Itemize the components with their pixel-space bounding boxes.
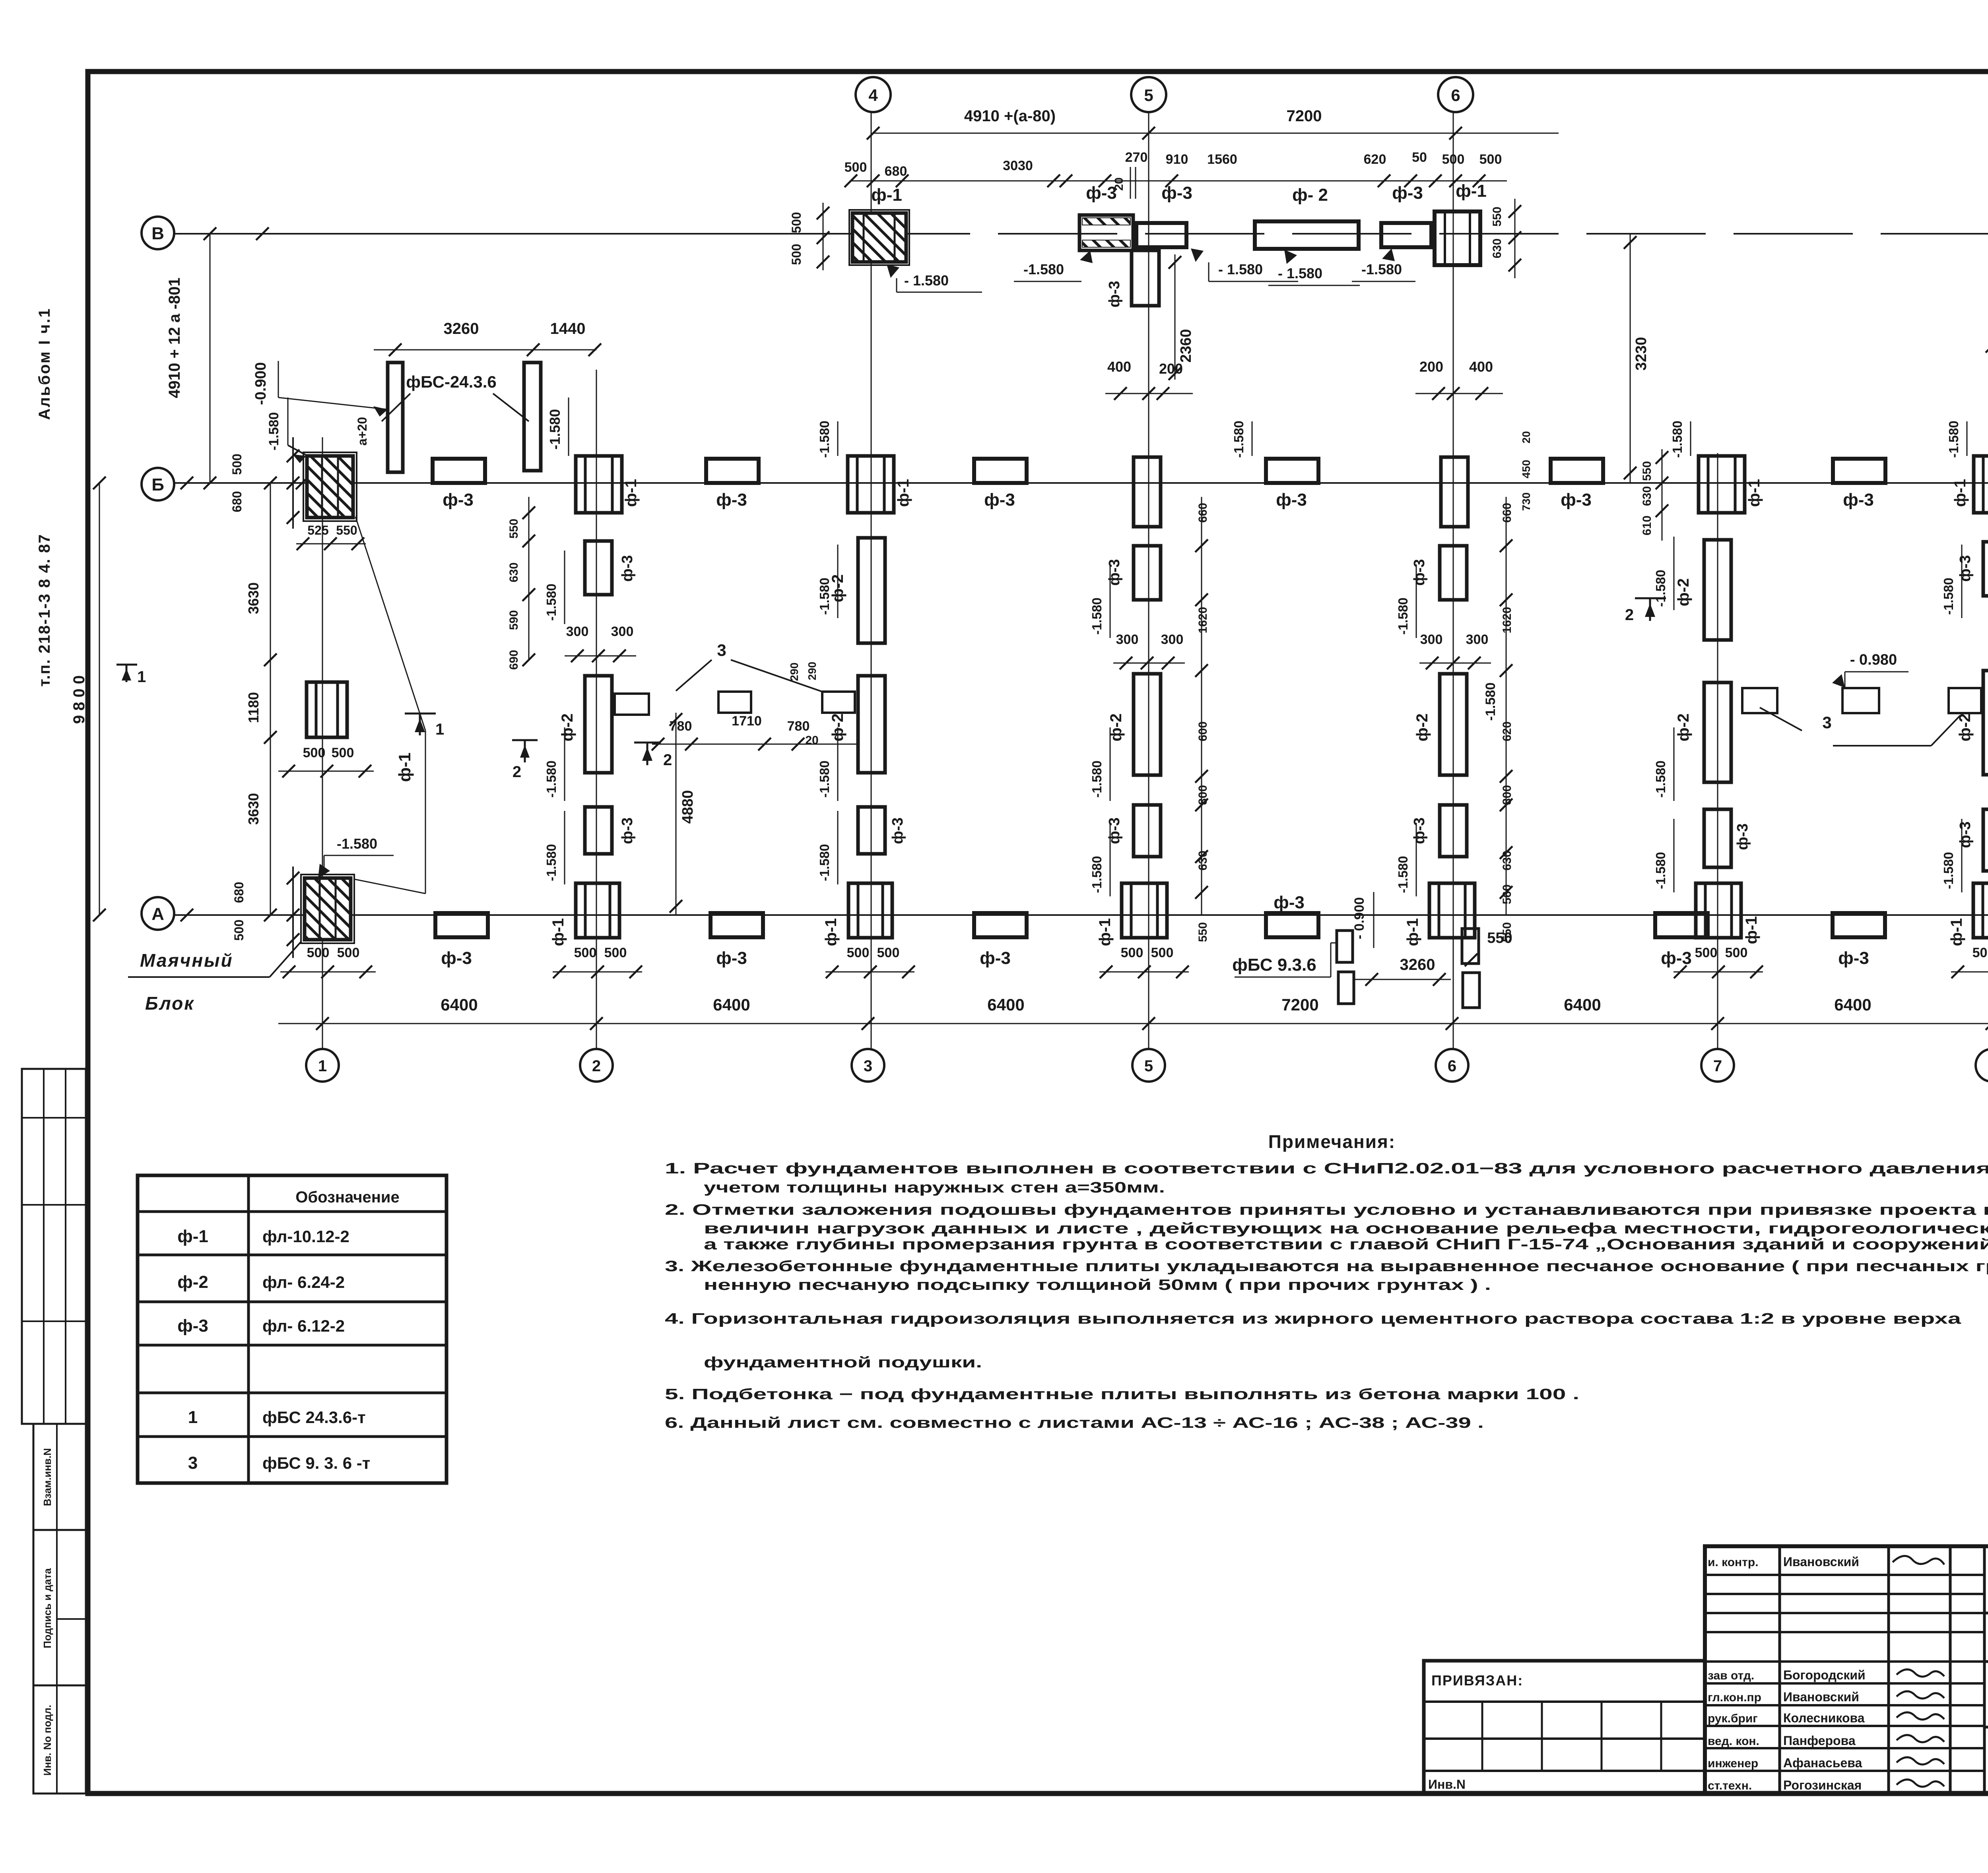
dim 3260 at А middle <box>1354 979 1451 980</box>
svg-text:500: 500 <box>574 945 597 960</box>
axis В circle <box>142 217 174 249</box>
svg-text:4910 +(a-80): 4910 +(a-80) <box>964 107 1056 125</box>
svg-text:630: 630 <box>507 562 520 582</box>
svg-text:ф-3: ф-3 <box>984 490 1015 510</box>
vertical dim 3630/1180/3630 col1 <box>270 483 271 915</box>
section mark 2 mid <box>634 742 661 744</box>
svg-text:3260: 3260 <box>444 320 479 337</box>
svg-text:-0.900: -0.900 <box>252 362 269 405</box>
малый блок ФБС-9.3.6 center-left <box>718 692 751 713</box>
stack col3 <box>858 538 885 643</box>
bottom axis circle 8 <box>1976 1049 1988 1082</box>
svg-text:ф-1: ф-1 <box>1096 918 1114 946</box>
svg-text:3: 3 <box>864 1057 872 1075</box>
svg-text:Рогозинская: Рогозинская <box>1783 1778 1862 1792</box>
блок Ф-3 hatched at В/5 left <box>1079 215 1133 250</box>
svg-text:2: 2 <box>663 751 672 769</box>
title block outer <box>1705 1546 1988 1794</box>
svg-text:рук.бриг: рук.бриг <box>1708 1712 1758 1725</box>
svg-text:500: 500 <box>604 945 627 960</box>
блок Ф-1 at Б/2 <box>576 456 622 513</box>
tick chain line col5 right <box>1201 497 1202 915</box>
axis Б circle <box>142 468 174 500</box>
bottom dimension line 6400 series <box>278 1023 1988 1024</box>
svg-text:500: 500 <box>847 945 870 960</box>
svg-text:500: 500 <box>1442 152 1465 167</box>
svg-text:500: 500 <box>337 945 360 960</box>
svg-text:1: 1 <box>188 1408 198 1427</box>
svg-text:ф-3: ф-3 <box>1276 490 1307 510</box>
svg-text:ф-1: ф-1 <box>1743 916 1760 944</box>
svg-text:780: 780 <box>787 719 810 734</box>
svg-text:6400: 6400 <box>987 995 1024 1014</box>
svg-text:Взам.инв.N: Взам.инв.N <box>41 1448 53 1506</box>
svg-text:1620: 1620 <box>1501 607 1514 634</box>
блок Ф-3 at Б between 7-8 <box>1833 459 1885 483</box>
svg-text:фундаментной подушки.: фундаментной подушки. <box>704 1354 982 1371</box>
svg-text:270: 270 <box>1125 150 1148 165</box>
top axis circle 5 <box>1131 77 1166 112</box>
svg-text:В: В <box>151 224 164 243</box>
svg-text:290: 290 <box>788 663 800 681</box>
svg-text:-1.580: -1.580 <box>544 760 559 798</box>
svg-text:-1.580: -1.580 <box>1089 856 1104 893</box>
svg-text:-1.580: -1.580 <box>1231 421 1246 458</box>
svg-text:-1.580: -1.580 <box>1396 856 1410 893</box>
svg-text:ф-3: ф-3 <box>1843 490 1874 510</box>
svg-text:800: 800 <box>1196 785 1209 805</box>
svg-text:Маячный: Маячный <box>140 950 233 971</box>
svg-text:1: 1 <box>318 1057 327 1075</box>
svg-text:500: 500 <box>332 745 354 760</box>
section mark 2 right <box>1635 597 1666 599</box>
svg-text:-1.580: -1.580 <box>544 584 559 621</box>
блок Ф-1 mid col1 <box>307 682 347 737</box>
маячный блок Ф-1 hatched at А/1 <box>301 874 354 943</box>
left margin strip: Инв. N подл cell <box>33 1685 86 1794</box>
svg-text:620: 620 <box>1364 152 1386 167</box>
svg-text:фБС-24.3.6: фБС-24.3.6 <box>406 372 496 391</box>
блок Ф-3 at А between 6-7 <box>1655 913 1708 937</box>
блок Ф-3 at Б between 2-3 <box>706 459 759 483</box>
svg-text:ф-3: ф-3 <box>619 817 636 844</box>
svg-text:3230: 3230 <box>1633 337 1650 371</box>
блок Ф-3 at В/5 right <box>1136 223 1186 247</box>
top dimension line 4910+(a-80) / 7200 <box>873 133 1559 134</box>
блок Ф-3 at А between 3-5 <box>974 913 1027 937</box>
svg-text:Ивановский: Ивановский <box>1783 1690 1859 1704</box>
стопка ФБС-9.3.6 crossing А <box>1337 931 1353 962</box>
svg-text:300: 300 <box>1466 632 1489 647</box>
svg-text:730: 730 <box>1520 492 1532 511</box>
stack col2 <box>585 541 612 595</box>
column line 6 <box>1453 112 1454 1049</box>
svg-text:2: 2 <box>513 763 521 781</box>
svg-text:величин нагрузок данных и л: величин нагрузок данных и листе , действ… <box>704 1220 1988 1237</box>
svg-text:ф-1: ф-1 <box>395 752 414 782</box>
svg-text:910: 910 <box>1166 152 1188 167</box>
svg-text:500: 500 <box>845 160 867 175</box>
section mark 2 small col2 <box>512 739 538 741</box>
svg-text:620: 620 <box>1501 721 1514 741</box>
svg-text:1710: 1710 <box>732 714 762 729</box>
svg-text:500: 500 <box>1479 152 1502 167</box>
svg-text:50: 50 <box>1412 150 1427 165</box>
блок Ф-3 at А between 5-6 <box>1266 913 1318 937</box>
svg-text:200: 200 <box>1419 359 1443 375</box>
svg-text:1. Расчет фундаментов выполн: 1. Расчет фундаментов выполнен в соответ… <box>665 1160 1988 1177</box>
малые блоки ФБС-9.3.6 у col7 <box>1742 688 1777 713</box>
svg-text:550: 550 <box>1491 207 1504 227</box>
svg-text:-1.580: -1.580 <box>1941 852 1956 889</box>
svg-text:-1.580: -1.580 <box>817 760 832 798</box>
svg-text:ф-2: ф-2 <box>1413 714 1431 742</box>
svg-text:-1.580: -1.580 <box>544 844 559 881</box>
svg-text:Инв. Nо подл.: Инв. Nо подл. <box>41 1705 53 1776</box>
top axis circle 4 <box>856 77 891 112</box>
svg-text:ст.техн.: ст.техн. <box>1708 1779 1752 1792</box>
column line 5 <box>1148 112 1149 1049</box>
svg-text:5: 5 <box>1144 86 1153 105</box>
svg-text:660: 660 <box>1196 503 1209 523</box>
svg-text:590: 590 <box>507 610 520 630</box>
svg-text:ф-2: ф-2 <box>177 1272 208 1292</box>
svg-text:фл- 6.12-2: фл- 6.12-2 <box>262 1317 345 1335</box>
svg-text:3: 3 <box>717 641 726 659</box>
svg-text:630: 630 <box>1491 238 1504 258</box>
svg-text:610: 610 <box>1640 516 1654 535</box>
svg-text:6. Данный лист см. совместн: 6. Данный лист см. совместно с листами А… <box>665 1415 1484 1431</box>
svg-text:5. Подбетонка − под фундаме: 5. Подбетонка − под фундаментные плиты в… <box>665 1386 1579 1403</box>
вертикальный блок Ф-3 crossing Б at col6 <box>1441 457 1468 527</box>
svg-text:4910 + 12 a -801: 4910 + 12 a -801 <box>166 277 183 398</box>
svg-text:Блок: Блок <box>145 993 195 1014</box>
vertical dim 3230 col6-7 <box>1630 234 1631 483</box>
svg-text:ф-3: ф-3 <box>1106 281 1123 307</box>
svg-text:2: 2 <box>1625 606 1634 624</box>
svg-text:500: 500 <box>307 945 330 960</box>
bottom axis circle 6 <box>1436 1049 1468 1082</box>
svg-text:ф-1: ф-1 <box>549 918 567 946</box>
svg-text:ф-3: ф-3 <box>441 948 472 968</box>
svg-text:-1.580: -1.580 <box>266 412 282 450</box>
svg-text:300: 300 <box>1161 632 1184 647</box>
svg-text:ф-3: ф-3 <box>1957 821 1974 848</box>
svg-text:500: 500 <box>1725 945 1748 960</box>
svg-text:800: 800 <box>1501 785 1514 805</box>
svg-text:a+20: a+20 <box>355 417 369 446</box>
svg-text:Богородский: Богородский <box>1783 1668 1866 1682</box>
svg-text:Примечания:: Примечания: <box>1268 1131 1396 1152</box>
leader lines Ф-1 col1 <box>355 517 425 731</box>
вертикальный блок Ф-3 below В/5 <box>1132 250 1159 306</box>
svg-text:ф-3: ф-3 <box>1274 893 1305 912</box>
малые блоки ФБС у col6 низ <box>1462 929 1479 964</box>
svg-text:Ивановский: Ивановский <box>1783 1555 1859 1569</box>
legend table <box>138 1175 447 1483</box>
svg-text:Б: Б <box>151 475 164 494</box>
svg-text:ф-3: ф-3 <box>1561 490 1592 510</box>
svg-text:-1.580: -1.580 <box>1941 578 1956 615</box>
svg-text:4: 4 <box>868 86 878 105</box>
блок Ф-3 at В between Ф-2 and Ф-1 <box>1381 223 1431 247</box>
svg-text:ф-3: ф-3 <box>1106 559 1123 586</box>
bottom axis circle 5 <box>1132 1049 1165 1082</box>
svg-text:инженер: инженер <box>1708 1757 1758 1770</box>
svg-text:а также глубины промерзания: а также глубины промерзания грунта в соо… <box>704 1236 1988 1253</box>
svg-text:-1.580: -1.580 <box>1089 760 1104 798</box>
svg-text:ф-3: ф-3 <box>716 948 747 968</box>
svg-text:ф-1: ф-1 <box>871 185 902 205</box>
блок Ф-1 at А/6 <box>1429 883 1475 938</box>
svg-text:ф-3: ф-3 <box>980 948 1011 968</box>
svg-text:Обозначение: Обозначение <box>295 1189 399 1206</box>
svg-text:ф-1: ф-1 <box>1745 479 1763 507</box>
svg-text:ф-3: ф-3 <box>1838 948 1869 968</box>
svg-text:2: 2 <box>592 1057 601 1075</box>
svg-text:Подпись и дата: Подпись и дата <box>41 1568 53 1648</box>
svg-text:6: 6 <box>1451 86 1460 105</box>
svg-text:20: 20 <box>805 734 818 747</box>
svg-text:- 1.580: - 1.580 <box>1278 265 1322 281</box>
svg-text:2360: 2360 <box>1178 329 1194 363</box>
svg-text:учетом толщины наружных сте: учетом толщины наружных стен а=350мм. <box>704 1179 1165 1196</box>
svg-text:6400: 6400 <box>713 995 750 1014</box>
svg-text:ф-3: ф-3 <box>1106 817 1123 844</box>
svg-text:1: 1 <box>137 668 146 686</box>
svg-text:3030: 3030 <box>1003 158 1033 173</box>
svg-text:ф-3: ф-3 <box>716 490 747 510</box>
svg-text:680: 680 <box>230 491 244 512</box>
bottom axis circle 3 <box>852 1049 884 1082</box>
svg-text:ф-3: ф-3 <box>1661 948 1692 968</box>
svg-text:ф-2: ф-2 <box>559 714 576 742</box>
svg-text:-1.580: -1.580 <box>817 844 832 881</box>
vertical dim 9800 Б-А <box>99 483 100 915</box>
svg-text:400: 400 <box>1469 359 1493 375</box>
svg-text:500: 500 <box>1695 945 1718 960</box>
svg-text:6400: 6400 <box>1564 995 1601 1014</box>
стена ФБС-24.3.6 left wall 2 <box>524 363 541 471</box>
svg-text:ПРИВЯЗАН:: ПРИВЯЗАН: <box>1431 1672 1523 1689</box>
svg-text:9 8 0 0: 9 8 0 0 <box>70 675 88 724</box>
svg-text:ф-1: ф-1 <box>822 918 840 946</box>
svg-text:-1.580: -1.580 <box>1653 760 1668 798</box>
section mark 1 mid <box>405 713 436 715</box>
svg-text:500: 500 <box>877 945 900 960</box>
svg-text:680: 680 <box>232 882 246 903</box>
svg-text:Панферова: Панферова <box>1783 1733 1856 1748</box>
блок Ф-3 at Б between 6-7 <box>1551 459 1603 483</box>
svg-text:-1.580: -1.580 <box>547 409 563 450</box>
svg-text:ф-1: ф-1 <box>1456 181 1487 201</box>
вертикальный блок Ф-3 col x=3655 upper <box>1440 546 1467 600</box>
svg-text:Инв.N: Инв.N <box>1428 1777 1466 1792</box>
блок Ф-1 at Б/3 <box>848 456 894 513</box>
svg-text:ненную песчаную подсыпку то: ненную песчаную подсыпку толщиной 50мм (… <box>704 1277 1491 1293</box>
svg-text:А: А <box>151 904 164 924</box>
svg-text:300: 300 <box>1116 632 1139 647</box>
stack col7 <box>1704 683 1731 782</box>
svg-text:- 0.980: - 0.980 <box>1850 651 1897 668</box>
svg-text:т.п. 218-1-3 8 4. 87: т.п. 218-1-3 8 4. 87 <box>36 534 53 687</box>
вертикальный блок Ф-3 col x=2885 upper <box>1134 546 1161 600</box>
svg-text:1: 1 <box>435 721 444 738</box>
svg-text:ф-3: ф-3 <box>1957 555 1974 582</box>
svg-text:680: 680 <box>885 164 907 179</box>
блок Ф-3 at А between 7-8 <box>1833 913 1885 937</box>
svg-text:550: 550 <box>1196 922 1209 942</box>
блок Ф-1 striped at В/6 <box>1435 211 1480 265</box>
вертикальный блок Ф-2 col x=2885 <box>1134 674 1161 775</box>
section mark 1 left <box>116 664 137 666</box>
блок Ф-3 at Б between 1-2 <box>433 459 485 483</box>
блок Ф-3 at А between 1-2 <box>435 913 488 937</box>
top dimension chain 500|680|3030|270|910|1560|620|50|500|500 <box>851 180 1507 182</box>
svg-text:ф-3: ф-3 <box>177 1316 208 1336</box>
svg-text:3630: 3630 <box>245 582 262 614</box>
svg-text:550: 550 <box>336 523 357 537</box>
column line 7 <box>1717 453 1718 1049</box>
svg-text:-1.580: -1.580 <box>817 578 832 615</box>
left margin strip: Взам.инв.N cell <box>33 1424 86 1530</box>
svg-text:1560: 1560 <box>1207 152 1237 167</box>
svg-text:ф-3: ф-3 <box>619 555 636 582</box>
блок Ф-1 at А/5 <box>1122 883 1167 938</box>
svg-text:500: 500 <box>1121 945 1143 960</box>
svg-text:- 0.900: - 0.900 <box>1352 897 1367 939</box>
svg-text:500: 500 <box>789 244 804 265</box>
svg-text:фБС 9. 3. 6 -т: фБС 9. 3. 6 -т <box>262 1454 370 1472</box>
svg-text:-1.580: -1.580 <box>1670 421 1685 458</box>
svg-text:500: 500 <box>232 919 246 940</box>
svg-text:ф-3: ф-3 <box>1161 183 1192 203</box>
svg-text:690: 690 <box>507 650 520 670</box>
svg-text:зав отд.: зав отд. <box>1708 1669 1754 1682</box>
блок Ф-1 hatched at В/4 <box>849 210 909 265</box>
svg-text:-1.580: -1.580 <box>1653 570 1668 607</box>
svg-text:3. Железобетонные фундаментн: 3. Железобетонные фундаментные плиты укл… <box>665 1258 1988 1275</box>
svg-text:200: 200 <box>1159 361 1183 377</box>
svg-text:7: 7 <box>1713 1057 1722 1075</box>
блок Ф-3 at А between 2-3 <box>711 913 763 937</box>
svg-text:вед. кон.: вед. кон. <box>1708 1735 1759 1748</box>
svg-text:-1.580: -1.580 <box>1946 421 1961 458</box>
dim line 3260/1440 left <box>374 349 596 351</box>
блок Ф-1 at А/7 <box>1696 883 1741 938</box>
вертикальный блок Ф-3 col x=2885 lower <box>1134 805 1161 857</box>
svg-text:ф-1: ф-1 <box>1948 918 1965 946</box>
svg-text:ф-3: ф-3 <box>1086 183 1117 203</box>
axis А circle <box>142 897 174 930</box>
stack col8 <box>1983 542 1988 596</box>
svg-text:300: 300 <box>566 624 589 639</box>
привязан block <box>1424 1661 1705 1794</box>
vertical dim 2360 at col5 <box>1175 254 1176 380</box>
svg-text:гл.кон.пр: гл.кон.пр <box>1708 1691 1761 1704</box>
малый блок ФБС col2 right <box>615 694 649 715</box>
вертикальный блок Ф-2 col x=3655 <box>1440 674 1467 775</box>
svg-text:630: 630 <box>1501 851 1514 871</box>
блок Ф-1 at Б/7 <box>1699 456 1745 513</box>
svg-text:7200: 7200 <box>1281 995 1318 1014</box>
svg-text:550: 550 <box>507 519 520 539</box>
svg-text:4880: 4880 <box>679 790 696 824</box>
svg-text:ф-1: ф-1 <box>622 479 640 507</box>
svg-text:и. контр.: и. контр. <box>1708 1556 1759 1569</box>
svg-text:500: 500 <box>789 212 804 233</box>
svg-text:фБС 24.3.6-т: фБС 24.3.6-т <box>262 1408 366 1427</box>
left margin cell strip <box>22 1069 86 1424</box>
svg-text:фл- 6.24-2: фл- 6.24-2 <box>262 1273 345 1291</box>
svg-text:1440: 1440 <box>550 320 586 337</box>
svg-text:-1.580: -1.580 <box>1653 852 1668 889</box>
svg-text:4. Горизонтальная гидроизоля: 4. Горизонтальная гидроизоляция выполняе… <box>665 1311 1961 1327</box>
vertical dim 4910+12a-801 между В и Б <box>210 234 211 483</box>
svg-text:20: 20 <box>1520 431 1532 443</box>
svg-text:660: 660 <box>1501 503 1514 523</box>
axis line В <box>174 233 851 235</box>
svg-text:-1.580: -1.580 <box>1089 597 1104 635</box>
svg-text:400: 400 <box>1107 359 1131 375</box>
svg-text:Афанасьева: Афанасьева <box>1783 1756 1862 1770</box>
svg-text:6400: 6400 <box>1834 995 1871 1014</box>
svg-text:ф-3: ф-3 <box>1411 817 1428 844</box>
svg-text:ф-3: ф-3 <box>889 817 906 844</box>
svg-text:-1.580: -1.580 <box>1361 261 1402 277</box>
axis line Б <box>174 482 1988 484</box>
блок Ф-1 at А/2 <box>576 883 619 938</box>
svg-text:ф- 2: ф- 2 <box>1292 185 1328 205</box>
svg-text:5: 5 <box>1144 1057 1153 1075</box>
svg-text:500: 500 <box>303 745 326 760</box>
tick chain line col2 left <box>528 497 530 660</box>
svg-text:- 1.580: - 1.580 <box>1218 261 1263 277</box>
col7 left chain 550/630/610 <box>1662 449 1663 541</box>
svg-text:1620: 1620 <box>1196 607 1209 634</box>
svg-text:550: 550 <box>1640 461 1654 481</box>
блок Ф-1 at Б/8 <box>1974 456 1988 513</box>
svg-text:450: 450 <box>1520 460 1532 479</box>
svg-text:300: 300 <box>1420 632 1443 647</box>
bottom axis circle 2 <box>580 1049 613 1082</box>
svg-text:ф-1: ф-1 <box>895 479 912 507</box>
svg-text:6: 6 <box>1448 1057 1456 1075</box>
svg-text:-1.580: -1.580 <box>337 836 377 852</box>
tick chain line col6 right <box>1506 497 1507 915</box>
svg-text:500: 500 <box>230 454 244 475</box>
svg-text:550: 550 <box>1487 930 1512 946</box>
svg-text:ф-2: ф-2 <box>1675 714 1692 742</box>
svg-text:600: 600 <box>1196 721 1209 741</box>
svg-text:500: 500 <box>1972 945 1988 960</box>
column line 1 <box>322 437 323 1049</box>
svg-text:ф-1: ф-1 <box>1951 479 1969 507</box>
svg-text:525: 525 <box>307 523 328 537</box>
svg-text:ф-1: ф-1 <box>177 1227 208 1246</box>
svg-text:300: 300 <box>611 624 634 639</box>
svg-text:780: 780 <box>670 719 692 734</box>
axis line А <box>174 914 1988 916</box>
блок Ф-3 at Б between 5-6 <box>1266 459 1318 483</box>
svg-text:ф-2: ф-2 <box>1675 578 1692 607</box>
svg-text:- 1.580: - 1.580 <box>904 272 949 289</box>
svg-text:-1.580: -1.580 <box>1483 683 1498 721</box>
column line 2 <box>596 370 597 1049</box>
svg-text:3260: 3260 <box>1400 956 1435 973</box>
svg-text:630: 630 <box>1640 486 1654 506</box>
svg-text:3: 3 <box>1822 713 1831 732</box>
